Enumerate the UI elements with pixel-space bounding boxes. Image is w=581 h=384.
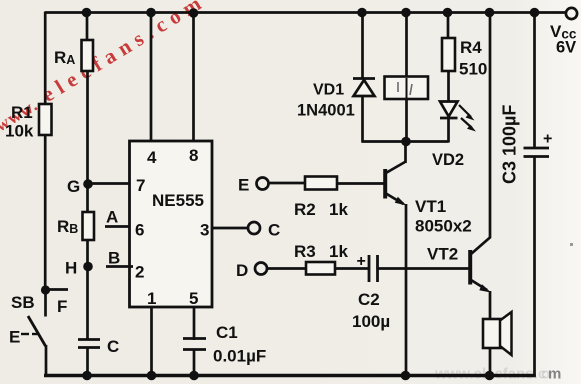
- wire relay bottom horizontal: [362, 140, 449, 143]
- switch SB lever: [28, 316, 46, 346]
- wire C3 to bottom rail: [533, 157, 536, 377]
- svg-text:C: C: [268, 221, 280, 240]
- op-amp timer NE555 box: [130, 141, 213, 307]
- wire relay to junction: [405, 99, 408, 143]
- svg-text:H: H: [65, 259, 77, 278]
- svg-text:1k: 1k: [329, 200, 348, 219]
- svg-text:6V: 6V: [556, 39, 576, 57]
- svg-text:1: 1: [147, 289, 156, 308]
- wire C2 to VT2 base: [378, 267, 470, 270]
- node H: [83, 262, 93, 272]
- LED VD2 emission arrows: [459, 105, 471, 117]
- svg-text:C1: C1: [216, 323, 238, 342]
- wire pin 3 to terminal C: [212, 227, 248, 230]
- svg-text:B: B: [108, 249, 120, 268]
- wire speaker to bottom rail: [489, 348, 492, 376]
- resistor R3: [306, 262, 335, 275]
- node SB upper contact: [41, 285, 50, 294]
- wire pin 4: [150, 13, 153, 143]
- wire D to R3: [267, 267, 307, 270]
- wire top rail to relay: [405, 13, 408, 78]
- resistor R4: [442, 38, 455, 71]
- node C3 top: [530, 8, 540, 18]
- svg-text:8: 8: [189, 146, 198, 165]
- capacitor C1: [183, 337, 206, 340]
- terminal Vcc: [566, 8, 577, 19]
- node VT1 emitter bottom: [401, 371, 411, 381]
- terminal C: [248, 222, 260, 234]
- svg-text:100µ: 100µ: [352, 312, 390, 331]
- svg-text:2: 2: [135, 263, 144, 282]
- wire C to bottom rail: [86, 348, 89, 376]
- node relay top: [401, 8, 411, 18]
- wire top rail to C3: [533, 13, 536, 149]
- svg-text:C: C: [107, 337, 119, 356]
- resistor R1: [39, 104, 52, 135]
- resistor R2: [305, 177, 337, 190]
- svg-text:8050x2: 8050x2: [415, 217, 472, 236]
- svg-text:+: +: [543, 131, 552, 148]
- wire top rail to VD1: [361, 13, 364, 80]
- svg-text:G: G: [67, 177, 80, 196]
- wire R3 to C2: [335, 267, 368, 270]
- wire G to RB: [86, 184, 89, 214]
- svg-text:0.01µF: 0.01µF: [213, 347, 266, 366]
- node pin1 bottom: [147, 371, 157, 381]
- node G: [83, 179, 93, 189]
- svg-text:R1: R1: [11, 103, 33, 122]
- wire stub below SB contact: [44, 290, 47, 317]
- node top rail / RA column: [82, 8, 92, 18]
- wire pin 8: [192, 13, 195, 143]
- wire R2 to VT1 base: [337, 182, 384, 185]
- svg-text:NE555: NE555: [152, 191, 204, 210]
- resistor RA: [82, 40, 94, 71]
- resistor RB: [83, 212, 95, 240]
- svg-text:3: 3: [200, 221, 209, 240]
- capacitor C3: [524, 147, 550, 150]
- wire top rail to RA: [86, 13, 89, 43]
- svg-text:C2: C2: [358, 290, 380, 309]
- wire pin 1 to bottom rail: [150, 307, 153, 376]
- svg-text:R4: R4: [460, 38, 482, 57]
- svg-text:1k: 1k: [329, 242, 348, 261]
- svg-text:10k: 10k: [5, 122, 34, 141]
- transistor VT2: [468, 250, 472, 285]
- wire RA to G: [86, 71, 89, 184]
- svg-text:VT2: VT2: [427, 245, 458, 264]
- node VT1 collector junction: [401, 137, 411, 147]
- wire junction to VT1 collector: [404, 142, 407, 164]
- wire pin 5 to C1: [193, 307, 196, 340]
- svg-text:C3 100µF: C3 100µF: [500, 105, 520, 184]
- svg-text:VD1: VD1: [313, 82, 344, 99]
- contact tick F: [46, 288, 69, 291]
- relay K coil: [385, 77, 429, 100]
- wire left branch upper (top rail to R1): [44, 12, 47, 107]
- node R4 top: [443, 8, 453, 18]
- wire RB to H: [86, 240, 89, 267]
- wire VT1 emitter down to bottom rail: [405, 204, 408, 376]
- svg-text:VT1: VT1: [415, 197, 446, 216]
- svg-text:VD2: VD2: [432, 151, 464, 169]
- node pin8 top: [189, 8, 199, 18]
- node C1 bottom: [189, 371, 199, 381]
- node pin4 top: [146, 8, 156, 18]
- svg-text:E: E: [238, 176, 249, 195]
- svg-text:R2: R2: [294, 200, 316, 219]
- wire VT2 emitter to speaker: [489, 291, 492, 321]
- transistor VT1: [385, 162, 406, 174]
- svg-text:6: 6: [135, 221, 144, 240]
- svg-text:R3: R3: [294, 242, 316, 261]
- svg-text:7: 7: [136, 176, 145, 195]
- svg-text:m: m: [548, 366, 561, 383]
- svg-text:1N4001: 1N4001: [297, 102, 355, 120]
- svg-text:5: 5: [189, 289, 198, 308]
- wire VD1 to bottom junction: [361, 96, 364, 143]
- capacitor C2: [368, 255, 371, 282]
- wire lever to bottom rail: [45, 345, 48, 376]
- speaker B: [483, 319, 503, 348]
- capacitor C: [78, 338, 100, 341]
- wire top rail to R4: [447, 13, 450, 41]
- wire R1 to switch SB: [44, 135, 47, 290]
- LED VD2: [440, 102, 458, 117]
- node VD1 top: [357, 8, 367, 18]
- node speaker bottom: [485, 371, 495, 381]
- svg-text:SB: SB: [11, 293, 35, 312]
- wire E to R2: [269, 182, 307, 185]
- wire top rail: [45, 11, 566, 14]
- wire H to capacitor C: [86, 267, 89, 341]
- svg-text:4: 4: [147, 148, 157, 167]
- svg-text:+: +: [357, 253, 366, 270]
- wire R4 to LED: [447, 71, 450, 102]
- diode VD1: [353, 77, 375, 80]
- wire G to pin 7: [88, 182, 130, 185]
- wire VT2 collector to top rail: [485, 8, 495, 18]
- svg-text:D: D: [236, 261, 248, 280]
- wire LED to junction row: [447, 117, 450, 143]
- wire C1 to bottom rail: [193, 350, 196, 376]
- svg-text:A: A: [106, 208, 118, 227]
- svg-text:E: E: [9, 328, 20, 347]
- wire bottom rail: [44, 374, 536, 377]
- node C bottom: [82, 371, 92, 381]
- svg-text:510: 510: [459, 60, 487, 79]
- svg-text:F: F: [57, 297, 67, 316]
